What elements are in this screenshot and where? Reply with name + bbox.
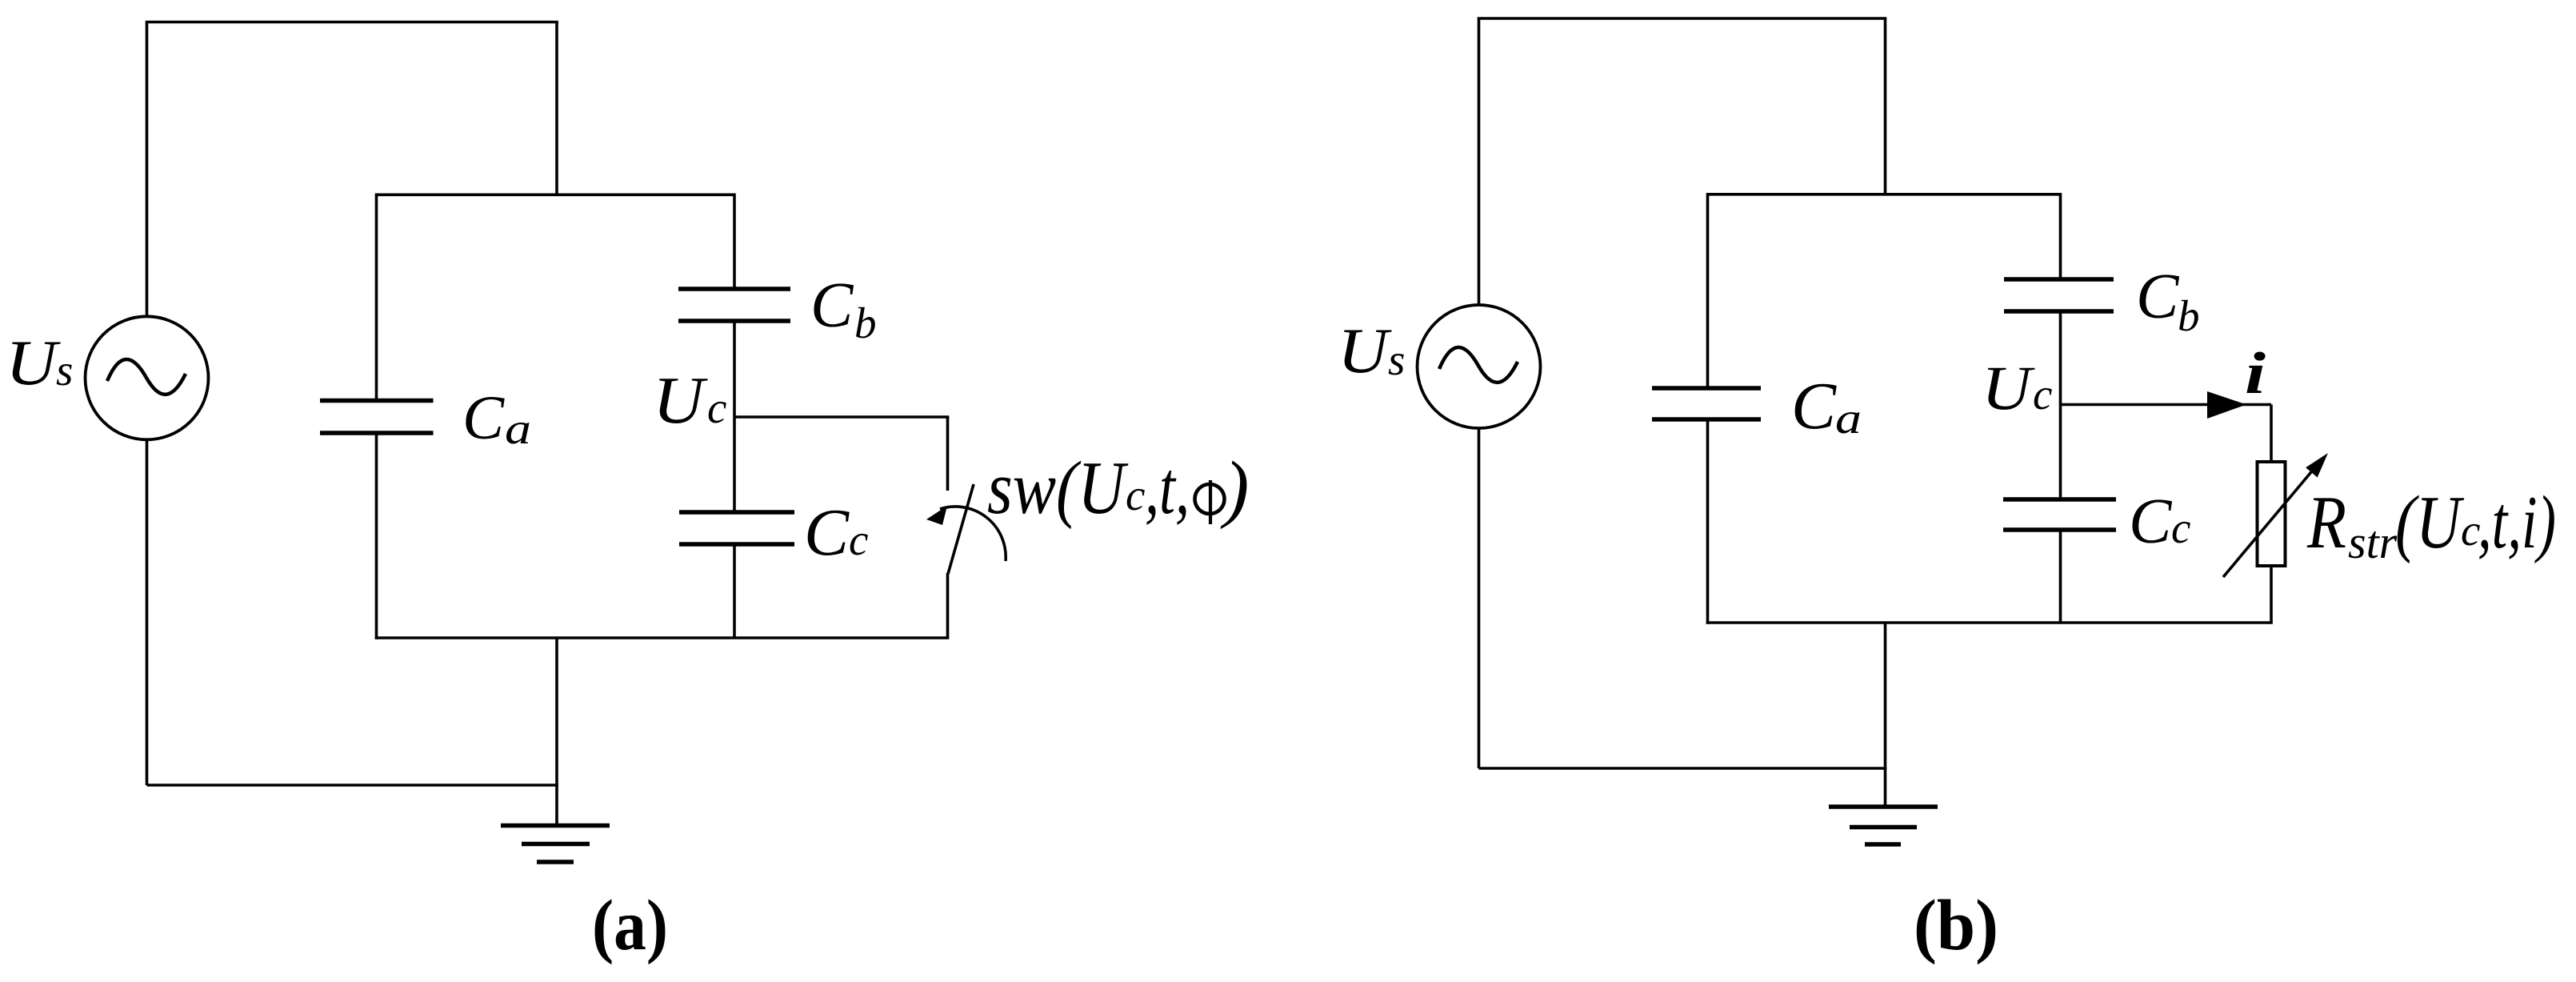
svg-text:a: a — [1835, 394, 1862, 443]
svg-text:(b): (b) — [1914, 886, 1998, 965]
svg-text:c: c — [707, 383, 726, 432]
svg-text:,t,i): ,t,i) — [2478, 481, 2556, 564]
svg-text:C: C — [810, 271, 854, 341]
svg-text:i: i — [2245, 341, 2266, 407]
svg-text:U: U — [1982, 353, 2035, 423]
svg-text:C: C — [1791, 369, 1837, 443]
svg-text:b: b — [2178, 291, 2200, 340]
svg-text:s: s — [56, 346, 73, 395]
svg-text:U: U — [1338, 316, 1393, 387]
svg-text:c: c — [2171, 503, 2190, 552]
svg-text:): ) — [1220, 447, 1249, 530]
svg-text:s: s — [1388, 335, 1405, 384]
svg-text:C: C — [804, 495, 850, 570]
svg-text:C: C — [462, 383, 505, 452]
svg-text:c: c — [1126, 471, 1145, 519]
svg-text:b: b — [854, 299, 877, 347]
svg-text:R: R — [2306, 481, 2346, 564]
svg-text:a: a — [505, 404, 531, 453]
svg-text:c: c — [849, 515, 868, 564]
svg-text:(U: (U — [2395, 481, 2464, 564]
svg-text:U: U — [6, 328, 62, 399]
svg-text:C: C — [2129, 487, 2173, 557]
svg-text:c: c — [2033, 370, 2052, 419]
svg-text:C: C — [2136, 262, 2180, 332]
svg-text:sw(U: sw(U — [987, 447, 1128, 530]
svg-text:(a): (a) — [592, 886, 668, 965]
svg-text:str: str — [2348, 516, 2398, 568]
svg-text:,t,: ,t, — [1145, 447, 1190, 530]
svg-text:U: U — [653, 363, 709, 438]
